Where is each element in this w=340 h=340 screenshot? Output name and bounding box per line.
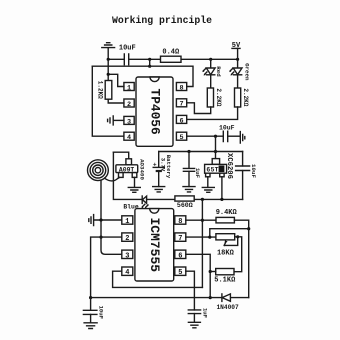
svg-text:0.4Ω: 0.4Ω <box>162 49 180 57</box>
svg-text:1N4007: 1N4007 <box>216 304 239 311</box>
svg-text:10uF: 10uF <box>219 125 235 132</box>
svg-text:6: 6 <box>178 252 182 260</box>
resistor R2 1.2K ohm <box>97 81 112 100</box>
wire 5.1K left <box>210 271 216 273</box>
pin 8 <box>176 83 186 93</box>
wire pin 5 down to 1uF <box>186 271 195 310</box>
wire pin 4 loop <box>113 271 203 287</box>
op-amp U3 ICM7555 body <box>135 209 174 281</box>
pin 4 <box>124 132 134 142</box>
motor M1 (coil) <box>88 160 120 181</box>
pin 7 <box>175 233 186 243</box>
svg-text:8: 8 <box>178 218 182 226</box>
svg-text:7: 7 <box>179 101 183 109</box>
svg-text:1: 1 <box>127 84 131 92</box>
LED D2 green <box>229 63 250 81</box>
svg-text:Working principle: Working principle <box>112 15 212 26</box>
resistor R1 0.4 ohm <box>161 49 182 63</box>
wire pin 5 to cap <box>187 135 224 137</box>
svg-text:3: 3 <box>125 252 129 260</box>
svg-text:560Ω: 560Ω <box>177 202 193 209</box>
svg-text:9.4KΩ: 9.4KΩ <box>216 209 238 217</box>
op-amp U1 TP4056 body <box>136 77 173 146</box>
svg-text:18KΩ: 18KΩ <box>217 250 235 258</box>
node 5V junction <box>236 58 239 61</box>
wire pin 7 to 18K <box>186 236 216 238</box>
capacitor C3 1uF <box>183 152 201 187</box>
ground below C5 <box>84 323 97 329</box>
wire regulator left to ground <box>207 177 209 187</box>
svg-text:T: T <box>215 167 219 174</box>
svg-text:2.2KΩ: 2.2KΩ <box>242 88 249 106</box>
wire bottom rail <box>91 297 249 299</box>
capacitor C1 10uF <box>119 45 136 65</box>
ground (sideways right) <box>240 132 245 143</box>
ground below 1uF <box>183 187 195 192</box>
5V supply label <box>232 42 241 67</box>
pin 3 <box>124 116 134 126</box>
wire drain down to blue led <box>113 152 142 199</box>
node top-left junction <box>107 58 110 61</box>
svg-text:5: 5 <box>178 269 182 277</box>
wire resistor to pin 7 <box>187 103 211 114</box>
pin 2 <box>122 233 133 243</box>
wire left rail to pin 4 <box>92 66 124 136</box>
ground below C6 <box>188 322 200 328</box>
svg-text:4: 4 <box>125 269 129 277</box>
svg-text:5.1KΩ: 5.1KΩ <box>214 277 236 285</box>
resistor R6 9.4K ohm <box>216 209 238 223</box>
pin 6 <box>175 250 186 260</box>
regulator U2 XC6206 (65T01) <box>205 153 233 179</box>
wire motor down to pin 3 <box>101 180 122 254</box>
svg-text:+: + <box>153 162 157 169</box>
svg-text:10uF: 10uF <box>119 45 136 53</box>
svg-text:1: 1 <box>125 218 129 226</box>
pin 7 <box>176 99 186 109</box>
LED D1 red <box>202 59 222 77</box>
pin 4 <box>122 267 133 277</box>
wire pin5 junction down to regulator <box>215 136 217 158</box>
node junction to CE rail <box>148 58 151 61</box>
svg-text:XC6206: XC6206 <box>225 153 233 179</box>
wire junction drop <box>149 59 151 66</box>
wire led to resistor <box>237 75 239 88</box>
resistor R4 2.2K ohm (green) <box>235 88 250 107</box>
svg-text:Green: Green <box>243 63 250 81</box>
capacitor C4 10uF (regulator output) <box>236 152 258 200</box>
pin 1 <box>122 216 133 226</box>
wire pin 8 to 9.4K <box>186 219 216 221</box>
svg-text:10uF: 10uF <box>98 306 105 320</box>
pin 3 <box>122 250 133 260</box>
svg-text:2: 2 <box>127 101 131 109</box>
wire 560 output <box>194 198 242 200</box>
capacitor C2 10uF <box>219 125 240 142</box>
svg-text:2: 2 <box>125 235 129 243</box>
ground (top-left, inverted) <box>102 43 115 60</box>
svg-text:TP4056: TP4056 <box>147 89 162 135</box>
wire VDD vertical <box>201 199 203 287</box>
svg-text:1uF: 1uF <box>194 168 201 179</box>
wire CE loop to pin 8 <box>92 66 193 86</box>
potentiometer R7 18K ohm <box>216 234 239 258</box>
ground below battery <box>153 187 165 192</box>
wire transistor to ground <box>134 177 136 187</box>
wire led to resistor <box>147 198 175 200</box>
resistor R3 2.2K ohm (red) <box>207 88 222 107</box>
svg-text:Battery: Battery <box>165 155 172 179</box>
svg-text:AO3400: AO3400 <box>139 159 146 180</box>
LED D3 blue <box>123 196 148 210</box>
svg-text:5: 5 <box>179 134 183 142</box>
svg-text:6: 6 <box>220 167 223 173</box>
wire regulator right down <box>221 177 223 200</box>
pin 2 <box>124 99 134 109</box>
wire bypass to pin 7 node <box>210 229 249 237</box>
svg-text:2.2KΩ: 2.2KΩ <box>215 88 222 106</box>
pin 1 <box>124 83 134 93</box>
diode D4 1N4007 <box>216 294 239 311</box>
ground below regulator <box>202 187 214 192</box>
resistor R8 5.1K ohm <box>214 269 236 285</box>
capacitor C5 10uF (bottom left) <box>83 298 104 323</box>
battery BT1 3.7V <box>153 152 172 187</box>
svg-text:1.2KΩ: 1.2KΩ <box>97 81 104 99</box>
ground pin 3 (sideways left) <box>108 116 124 125</box>
wire 5V top rail <box>108 58 237 60</box>
node LED red junction <box>209 58 212 61</box>
wire resistor to pin 2 <box>108 99 124 103</box>
svg-text:8: 8 <box>179 84 183 92</box>
wire pin 6 down <box>186 254 210 297</box>
svg-text:6: 6 <box>179 117 183 125</box>
pin 5 <box>176 132 186 142</box>
wire led to resistor <box>210 75 212 88</box>
resistor R5 560 ohm <box>175 196 194 209</box>
wire resistor to pin 6 <box>187 107 238 119</box>
svg-text:3: 3 <box>127 118 131 126</box>
svg-text:4: 4 <box>127 134 131 142</box>
svg-text:7: 7 <box>178 235 182 243</box>
svg-text:Red: Red <box>215 66 222 77</box>
transistor Q1 AO3400 (A09T) <box>113 152 145 180</box>
svg-text:1uF: 1uF <box>202 308 209 319</box>
svg-text:10uF: 10uF <box>250 164 257 178</box>
wire pin 2 down to bottom rail <box>91 237 122 298</box>
pin 8 <box>175 216 186 226</box>
capacitor C6 1uF (bottom) <box>188 308 208 322</box>
svg-text:ICM7555: ICM7555 <box>147 217 162 272</box>
pin 5 <box>175 267 186 277</box>
pin 6 <box>176 115 186 125</box>
wire battery rail <box>159 151 243 153</box>
ground pin 1 (sideways left) <box>89 215 122 226</box>
ground below transistor <box>128 187 140 192</box>
wire ground to resistor and pin 1 branch <box>108 59 124 86</box>
wire 18K right to 5.1K right <box>234 237 242 272</box>
wire 9.4K right down <box>234 220 248 297</box>
